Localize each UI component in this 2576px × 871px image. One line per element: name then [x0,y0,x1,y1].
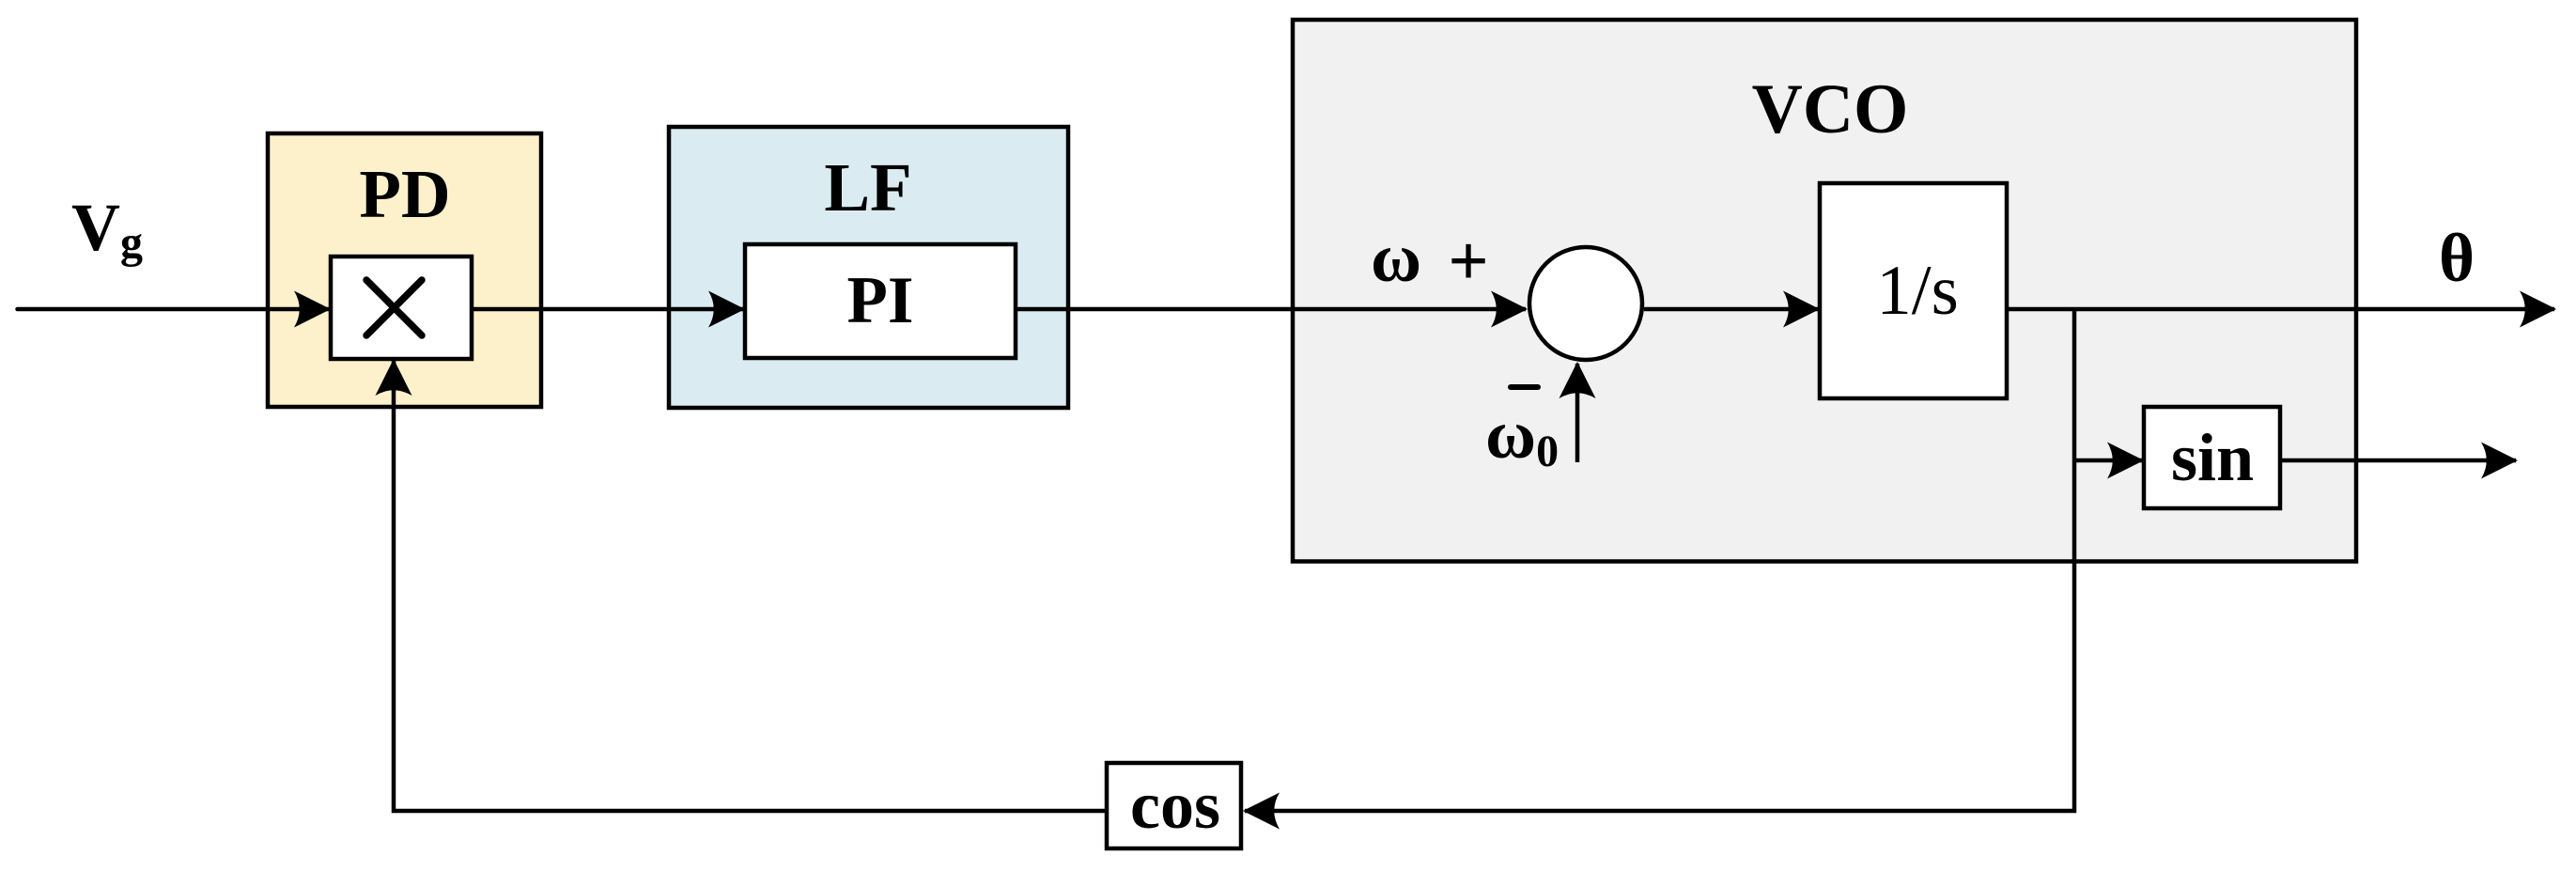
svg-text:sin: sin [2171,420,2254,495]
svg-text:ω: ω [1371,220,1421,297]
wire summing junction to 1/s [1644,307,1818,312]
svg-text:1/s: 1/s [1876,252,1959,330]
arrowhead theta output [2520,291,2556,328]
svg-text:LF: LF [824,149,911,226]
multiplier X symbol [366,280,422,335]
svg-text:cos: cos [1130,768,1220,843]
arrowhead into summing junction [1491,291,1528,328]
block LF (loop filter container) [669,127,1068,408]
wire Vg input [18,307,331,312]
multiplier box in PD [331,257,472,359]
wire feedback vertical branch and bottom into cos [1245,307,2074,811]
wire theta output [2007,307,2554,312]
svg-text:VCO: VCO [1752,70,1909,148]
wire sin output [2280,459,2516,463]
arrowhead omega0 into summing junction [1560,362,1596,398]
wire branch to sin [2074,459,2142,463]
arrowhead sin output [2481,443,2518,479]
svg-text:+: + [1448,222,1488,301]
wire multiplier to PI [472,307,743,312]
summing junction circle [1529,247,1642,360]
block PI (inside LF) [745,244,1016,358]
svg-text:Vg: Vg [71,190,143,268]
svg-text:PD: PD [359,156,450,232]
arrowhead into cos [1243,793,1280,830]
block PD (phase detector container) [268,133,541,407]
svg-text:θ: θ [2439,220,2475,296]
arrowhead into multiplier [294,291,331,328]
arrowhead into PI [708,291,745,328]
block VCO (outer container) [1293,20,2356,562]
arrowhead into sin [2107,443,2144,479]
block cos [1107,763,1241,848]
wire cos to left vertical, up to multiplier [394,361,1107,811]
label minus [1511,384,1538,390]
block sin [2144,407,2280,508]
arrowhead into multiplier bottom [376,359,412,396]
wire omega0 stub [1575,364,1580,462]
arrowhead into 1/s [1783,291,1820,328]
wire PI to summing junction [1016,307,1526,312]
svg-text:PI: PI [847,264,914,337]
block 1/s (integrator) [1820,183,2007,398]
